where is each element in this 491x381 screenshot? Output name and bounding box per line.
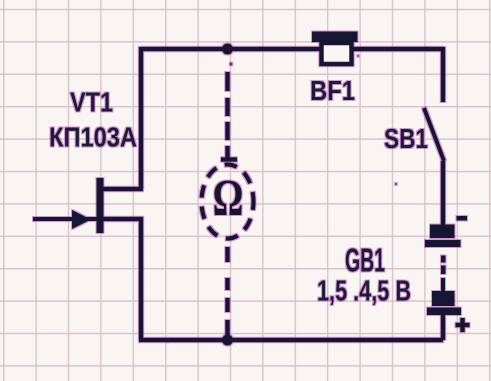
wire: right vertical below top corner (to switch) — [441, 47, 446, 102]
wire: right vertical battery to bottom rail — [441, 314, 446, 340]
wire: dashed meter lead (top) — [221, 72, 237, 161]
node A: top junction dot — [222, 44, 233, 55]
speckle — [167, 340, 170, 343]
meter P1 ohmmeter dashed circle — [202, 165, 254, 239]
switch SB1 blade — [424, 108, 444, 161]
svg-text:1,5 .4,5 В: 1,5 .4,5 В — [317, 276, 411, 308]
speckle — [357, 55, 359, 57]
svg-text:VT1: VT1 — [70, 87, 113, 118]
speckle — [395, 183, 397, 185]
meter P1 omega symbol — [213, 168, 244, 226]
speckle — [230, 63, 233, 66]
wire: battery inter-cell connector — [441, 278, 445, 292]
svg-text:Ω: Ω — [213, 168, 244, 226]
wire: left vertical (drain to top rail) — [139, 47, 144, 189]
svg-text:КП103А: КП103А — [49, 122, 137, 153]
svg-text:SB1: SB1 — [384, 123, 428, 154]
svg-text:BF1: BF1 — [310, 75, 355, 106]
battery GB1 cell 2 long electrode — [427, 308, 461, 316]
plus sign — [456, 318, 470, 332]
wire: right vertical between switch and battery — [441, 161, 446, 225]
wire: bottom rail — [139, 338, 443, 343]
battery ellipsis dots — [441, 256, 446, 263]
battery GB1 cell 1 short thick electrode — [430, 225, 455, 239]
wire: drain lead horizontal — [99, 187, 143, 192]
transistor Q VT1 channel bar — [97, 178, 104, 233]
svg-text:GB1: GB1 — [345, 242, 385, 279]
headphone BF1 cap bar — [312, 32, 358, 43]
node B: bottom junction dot — [222, 335, 233, 346]
minus sign — [457, 216, 468, 221]
wire: gate lead — [33, 217, 97, 221]
battery GB1 cell 2 short thick electrode — [432, 291, 455, 306]
wire: source lead horizontal — [101, 217, 143, 222]
battery GB1 cell 1 long electrode — [425, 240, 461, 247]
wire: top rail — [141, 47, 443, 52]
headphone BF1 body box — [322, 43, 352, 64]
transistor VT1 gate arrow — [72, 210, 91, 229]
wire: left vertical (source down to bottom rail) — [139, 217, 144, 340]
wire: dashed meter lead (bottom) — [225, 247, 230, 338]
